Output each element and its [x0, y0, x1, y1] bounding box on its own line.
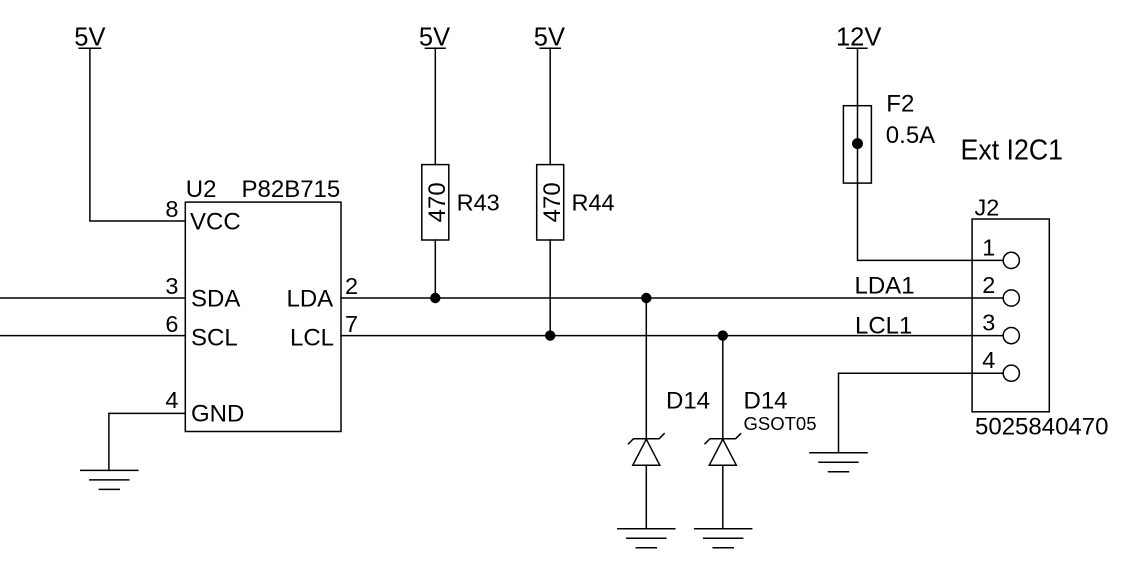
ground under diode D14b [695, 529, 752, 548]
svg-text:GND: GND [191, 401, 244, 428]
connector J2 body [972, 219, 1049, 412]
svg-text:VCC: VCC [190, 209, 241, 236]
IC U2 body [185, 202, 341, 431]
wire 5V to U2 pin 8 [90, 48, 185, 221]
wire diode D14a to LDA net [645, 298, 647, 439]
wire SDA to U2 pin 3 [0, 297, 185, 299]
svg-text:LDA: LDA [287, 285, 334, 312]
wire 5V to R43 [434, 48, 436, 164]
power 5V symbol (left) [79, 47, 100, 49]
svg-text:0.5A: 0.5A [886, 122, 935, 149]
wire 12V through fuse F2 to J2 pin 1 [858, 48, 1004, 260]
J2 pin 2 circle [1003, 290, 1019, 306]
svg-text:470: 470 [539, 182, 566, 222]
svg-text:Ext I2C1: Ext I2C1 [961, 134, 1064, 166]
wire J2 pin 4 to ground [839, 373, 1004, 453]
resistor R44 body [537, 165, 564, 240]
svg-text:F2: F2 [886, 91, 914, 118]
junction R44-LCL [545, 330, 555, 340]
svg-text:4: 4 [982, 347, 995, 373]
zener diode D14b triangle [709, 439, 736, 465]
svg-text:3: 3 [165, 273, 178, 299]
svg-text:LDA1: LDA1 [855, 273, 915, 300]
ground near J2 pin 4 [810, 453, 867, 472]
fuse F2 body [843, 106, 871, 183]
svg-text:D14: D14 [744, 388, 788, 415]
zener diode D14b cathode bar [705, 434, 741, 444]
J2 pin 3 circle [1003, 328, 1019, 344]
wire SCL to U2 pin 6 [0, 335, 185, 337]
ground under diode D14a [618, 529, 675, 548]
svg-text:5V: 5V [419, 23, 450, 51]
svg-text:LCL: LCL [290, 324, 334, 351]
J2 pin 1 circle [1003, 252, 1019, 268]
zener diode D14a cathode bar [629, 434, 665, 444]
svg-text:R44: R44 [572, 190, 615, 216]
svg-text:SCL: SCL [191, 324, 238, 351]
junction D14b-LCL [718, 330, 728, 340]
svg-text:R43: R43 [457, 190, 500, 216]
wire LCL net (U2 pin 7 to J2 pin 3) [341, 335, 1003, 337]
svg-text:J2: J2 [975, 194, 1000, 220]
zener diode D14a triangle [633, 439, 660, 465]
wire diode D14b to LCL net [722, 336, 724, 439]
junction R43-LDA [430, 293, 440, 303]
wire diode D14a to ground [645, 465, 647, 529]
ground under U2 [81, 470, 138, 489]
power 5V symbol (above R43) [425, 47, 445, 49]
svg-text:12V: 12V [836, 23, 881, 51]
svg-text:7: 7 [345, 311, 358, 337]
svg-text:2: 2 [345, 273, 358, 299]
svg-text:5025840470: 5025840470 [975, 414, 1108, 441]
wire R43 to LDA net [434, 240, 436, 298]
power 12V symbol [847, 47, 867, 49]
svg-text:D14: D14 [666, 388, 710, 415]
J2 pin 4 circle [1003, 365, 1019, 381]
svg-text:8: 8 [165, 196, 178, 222]
svg-text:4: 4 [165, 387, 178, 413]
svg-text:GSOT05: GSOT05 [744, 413, 817, 434]
svg-text:1: 1 [982, 235, 995, 261]
svg-text:SDA: SDA [191, 285, 240, 312]
svg-text:5V: 5V [534, 23, 565, 51]
wire diode D14b to ground [722, 465, 724, 529]
wire 5V to R44 [549, 48, 551, 164]
svg-text:2: 2 [982, 272, 995, 298]
svg-text:6: 6 [165, 311, 178, 337]
svg-text:3: 3 [982, 310, 995, 336]
resistor R43 body [422, 165, 449, 240]
wire U2 pin 4 GND [109, 413, 185, 470]
svg-text:LCL1: LCL1 [855, 312, 912, 339]
wire R44 to LCL net [549, 240, 551, 336]
wire LDA net (U2 pin 2 to J2 pin 2) [341, 297, 1003, 299]
power 5V symbol (above R44) [540, 47, 560, 49]
fuse F2 dot [852, 138, 863, 149]
svg-text:P82B715: P82B715 [242, 176, 341, 203]
junction D14a-LDA [641, 293, 651, 303]
svg-text:U2: U2 [186, 176, 217, 203]
svg-text:5V: 5V [74, 23, 105, 51]
svg-text:470: 470 [424, 182, 451, 222]
